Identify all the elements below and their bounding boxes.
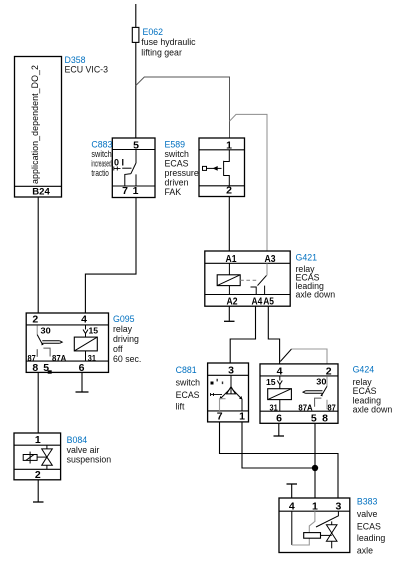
- svg-text:2: 2: [226, 185, 232, 197]
- wire E589 pin2 to G421 A1: [228, 197, 230, 252]
- svg-text:FAK: FAK: [165, 187, 182, 197]
- svg-text:increased: increased: [91, 159, 111, 169]
- svg-text:31: 31: [270, 403, 278, 413]
- svg-text:6: 6: [79, 362, 85, 374]
- relay G421 contact: [240, 279, 257, 281]
- svg-text:6: 6: [276, 412, 282, 424]
- svg-text:87A: 87A: [52, 353, 66, 363]
- wire branch fuse to E589 pin 1: [136, 77, 230, 138]
- wire A4 to C881 pin 3: [230, 306, 255, 363]
- svg-text:7: 7: [122, 185, 128, 197]
- ground at G095 pin 6: [81, 372, 83, 391]
- junction node: [312, 465, 318, 471]
- svg-text:application_dependent_DO_2: application_dependent_DO_2: [30, 65, 40, 184]
- wire C881 pin 7 to B383 pin 3: [220, 422, 339, 498]
- svg-text:driving: driving: [113, 334, 139, 344]
- svg-text:lift: lift: [176, 402, 185, 412]
- svg-text:3: 3: [335, 501, 341, 513]
- svg-text:2: 2: [326, 365, 332, 377]
- svg-text:G424: G424: [353, 364, 375, 374]
- svg-text:off: off: [113, 344, 123, 354]
- svg-text:4: 4: [289, 501, 295, 513]
- svg-text:axle down: axle down: [353, 405, 393, 415]
- svg-text:31: 31: [88, 353, 96, 363]
- wire A5 to G424 pin 4: [268, 306, 279, 364]
- wire G424 pin 5 to B383 pin 1: [314, 423, 316, 498]
- svg-text:axle: axle: [357, 546, 373, 556]
- svg-text:pressure: pressure: [165, 168, 199, 178]
- svg-text:B383: B383: [357, 497, 378, 507]
- svg-text:switch: switch: [165, 149, 190, 159]
- svg-text:1: 1: [226, 139, 232, 151]
- svg-text:D358: D358: [65, 55, 86, 65]
- svg-text:ECAS: ECAS: [165, 159, 189, 169]
- svg-text:3: 3: [228, 365, 234, 377]
- svg-text:A3: A3: [265, 253, 276, 265]
- wire C883 pin1 to G095 pin 4: [85, 198, 136, 313]
- svg-text:A1: A1: [226, 253, 237, 265]
- svg-text:B084: B084: [67, 435, 88, 445]
- svg-text:lifting gear: lifting gear: [141, 48, 182, 58]
- svg-text:1: 1: [35, 434, 41, 446]
- svg-text:ECAS: ECAS: [176, 390, 200, 400]
- svg-text:87: 87: [28, 353, 37, 363]
- termination above B383 pin 4: [291, 485, 293, 499]
- svg-text:87A: 87A: [298, 403, 312, 413]
- svg-text:8: 8: [32, 362, 38, 374]
- svg-text:15: 15: [89, 326, 99, 336]
- svg-text:0 I: 0 I: [114, 157, 124, 167]
- ECU D358 box: [15, 57, 62, 198]
- svg-text:1: 1: [312, 501, 318, 513]
- valve B084 solenoid: [23, 455, 37, 461]
- junction square below 5: [48, 370, 52, 373]
- switch E589 internals (pressure contact): [207, 150, 230, 186]
- relay G424 box: [260, 364, 338, 423]
- svg-text:4: 4: [277, 365, 283, 377]
- switch C883 box: [112, 138, 155, 198]
- svg-text:fuse hydraulic: fuse hydraulic: [141, 37, 196, 47]
- svg-text:C883: C883: [91, 139, 112, 149]
- svg-text:A4: A4: [252, 295, 263, 307]
- ground at A2: [228, 306, 230, 321]
- relay G095 contact 30/87/87A: [36, 325, 38, 334]
- svg-text:switch: switch: [91, 149, 111, 159]
- svg-text:2: 2: [35, 469, 41, 481]
- svg-text:30: 30: [41, 326, 51, 336]
- svg-text:leading: leading: [357, 533, 385, 543]
- svg-text:15: 15: [266, 377, 276, 387]
- switch C881 box: [208, 363, 249, 422]
- wire bridge G424 pin4 to pin2 (gray): [280, 349, 291, 362]
- svg-text:4: 4: [81, 314, 87, 326]
- svg-text:5: 5: [311, 412, 317, 424]
- svg-text:30: 30: [316, 377, 326, 387]
- svg-text:8: 8: [322, 412, 328, 424]
- switch E589 box: [199, 138, 245, 197]
- svg-text:tractio: tractio: [91, 168, 109, 178]
- fuse E062: [132, 27, 139, 42]
- svg-text:ECAS: ECAS: [357, 522, 381, 532]
- valve B084 valve symbol: [37, 445, 52, 469]
- svg-text:A2: A2: [227, 295, 238, 307]
- svg-text:axle down: axle down: [296, 290, 336, 300]
- svg-text:1: 1: [133, 185, 139, 197]
- wire G095 pin 8 to B084 pin 1: [37, 372, 39, 433]
- relay G424 contact 30/87A/87: [326, 376, 328, 386]
- svg-text:valve air: valve air: [67, 445, 100, 455]
- svg-text:1: 1: [239, 411, 245, 423]
- svg-text:E062: E062: [143, 27, 164, 37]
- wire B24 to G095 pin 2: [37, 197, 39, 313]
- svg-text:A5: A5: [263, 295, 274, 307]
- valve B383 box: [279, 498, 350, 553]
- relay G095 box: [26, 313, 108, 372]
- svg-text:B24: B24: [32, 187, 50, 198]
- valve B084 box: [14, 433, 61, 480]
- svg-text:C881: C881: [176, 365, 197, 375]
- svg-text:switch: switch: [176, 378, 201, 388]
- svg-text:driven: driven: [165, 178, 189, 188]
- switch C883 internals: [122, 150, 136, 187]
- ground at B084 pin 2: [37, 480, 39, 502]
- svg-text:relay: relay: [113, 324, 133, 334]
- relay G095 coil 15/31: [83, 325, 88, 337]
- wire C881 pin 1 to junction: [242, 422, 315, 468]
- svg-text:G095: G095: [113, 314, 135, 324]
- relay G421 box: [205, 251, 290, 306]
- svg-text:E589: E589: [165, 140, 186, 150]
- switch C881 left marks: [211, 382, 214, 385]
- wire branch to G421 A3 (gray): [230, 114, 268, 251]
- ground at G424 pin 6: [278, 423, 280, 435]
- relay G424 coil 15/31: [277, 376, 282, 389]
- svg-text:2: 2: [32, 314, 38, 326]
- svg-text:valve: valve: [357, 509, 378, 519]
- valve B383 valve symbol: [321, 521, 338, 548]
- svg-text:G421: G421: [296, 252, 318, 262]
- switch C881 internals: [220, 375, 243, 411]
- svg-text:60 sec.: 60 sec.: [113, 354, 141, 364]
- svg-text:suspension: suspension: [67, 454, 112, 464]
- relay G421 coil: [217, 275, 240, 286]
- svg-text:ECU VIC-3: ECU VIC-3: [65, 65, 109, 75]
- svg-text:87: 87: [328, 403, 337, 413]
- switch C883 manual actuator mark: [114, 167, 121, 171]
- svg-text:7: 7: [217, 411, 223, 423]
- wire main vertical from top through fuse to C883 pin 5: [135, 4, 137, 138]
- valve B383 internals: [291, 511, 293, 545]
